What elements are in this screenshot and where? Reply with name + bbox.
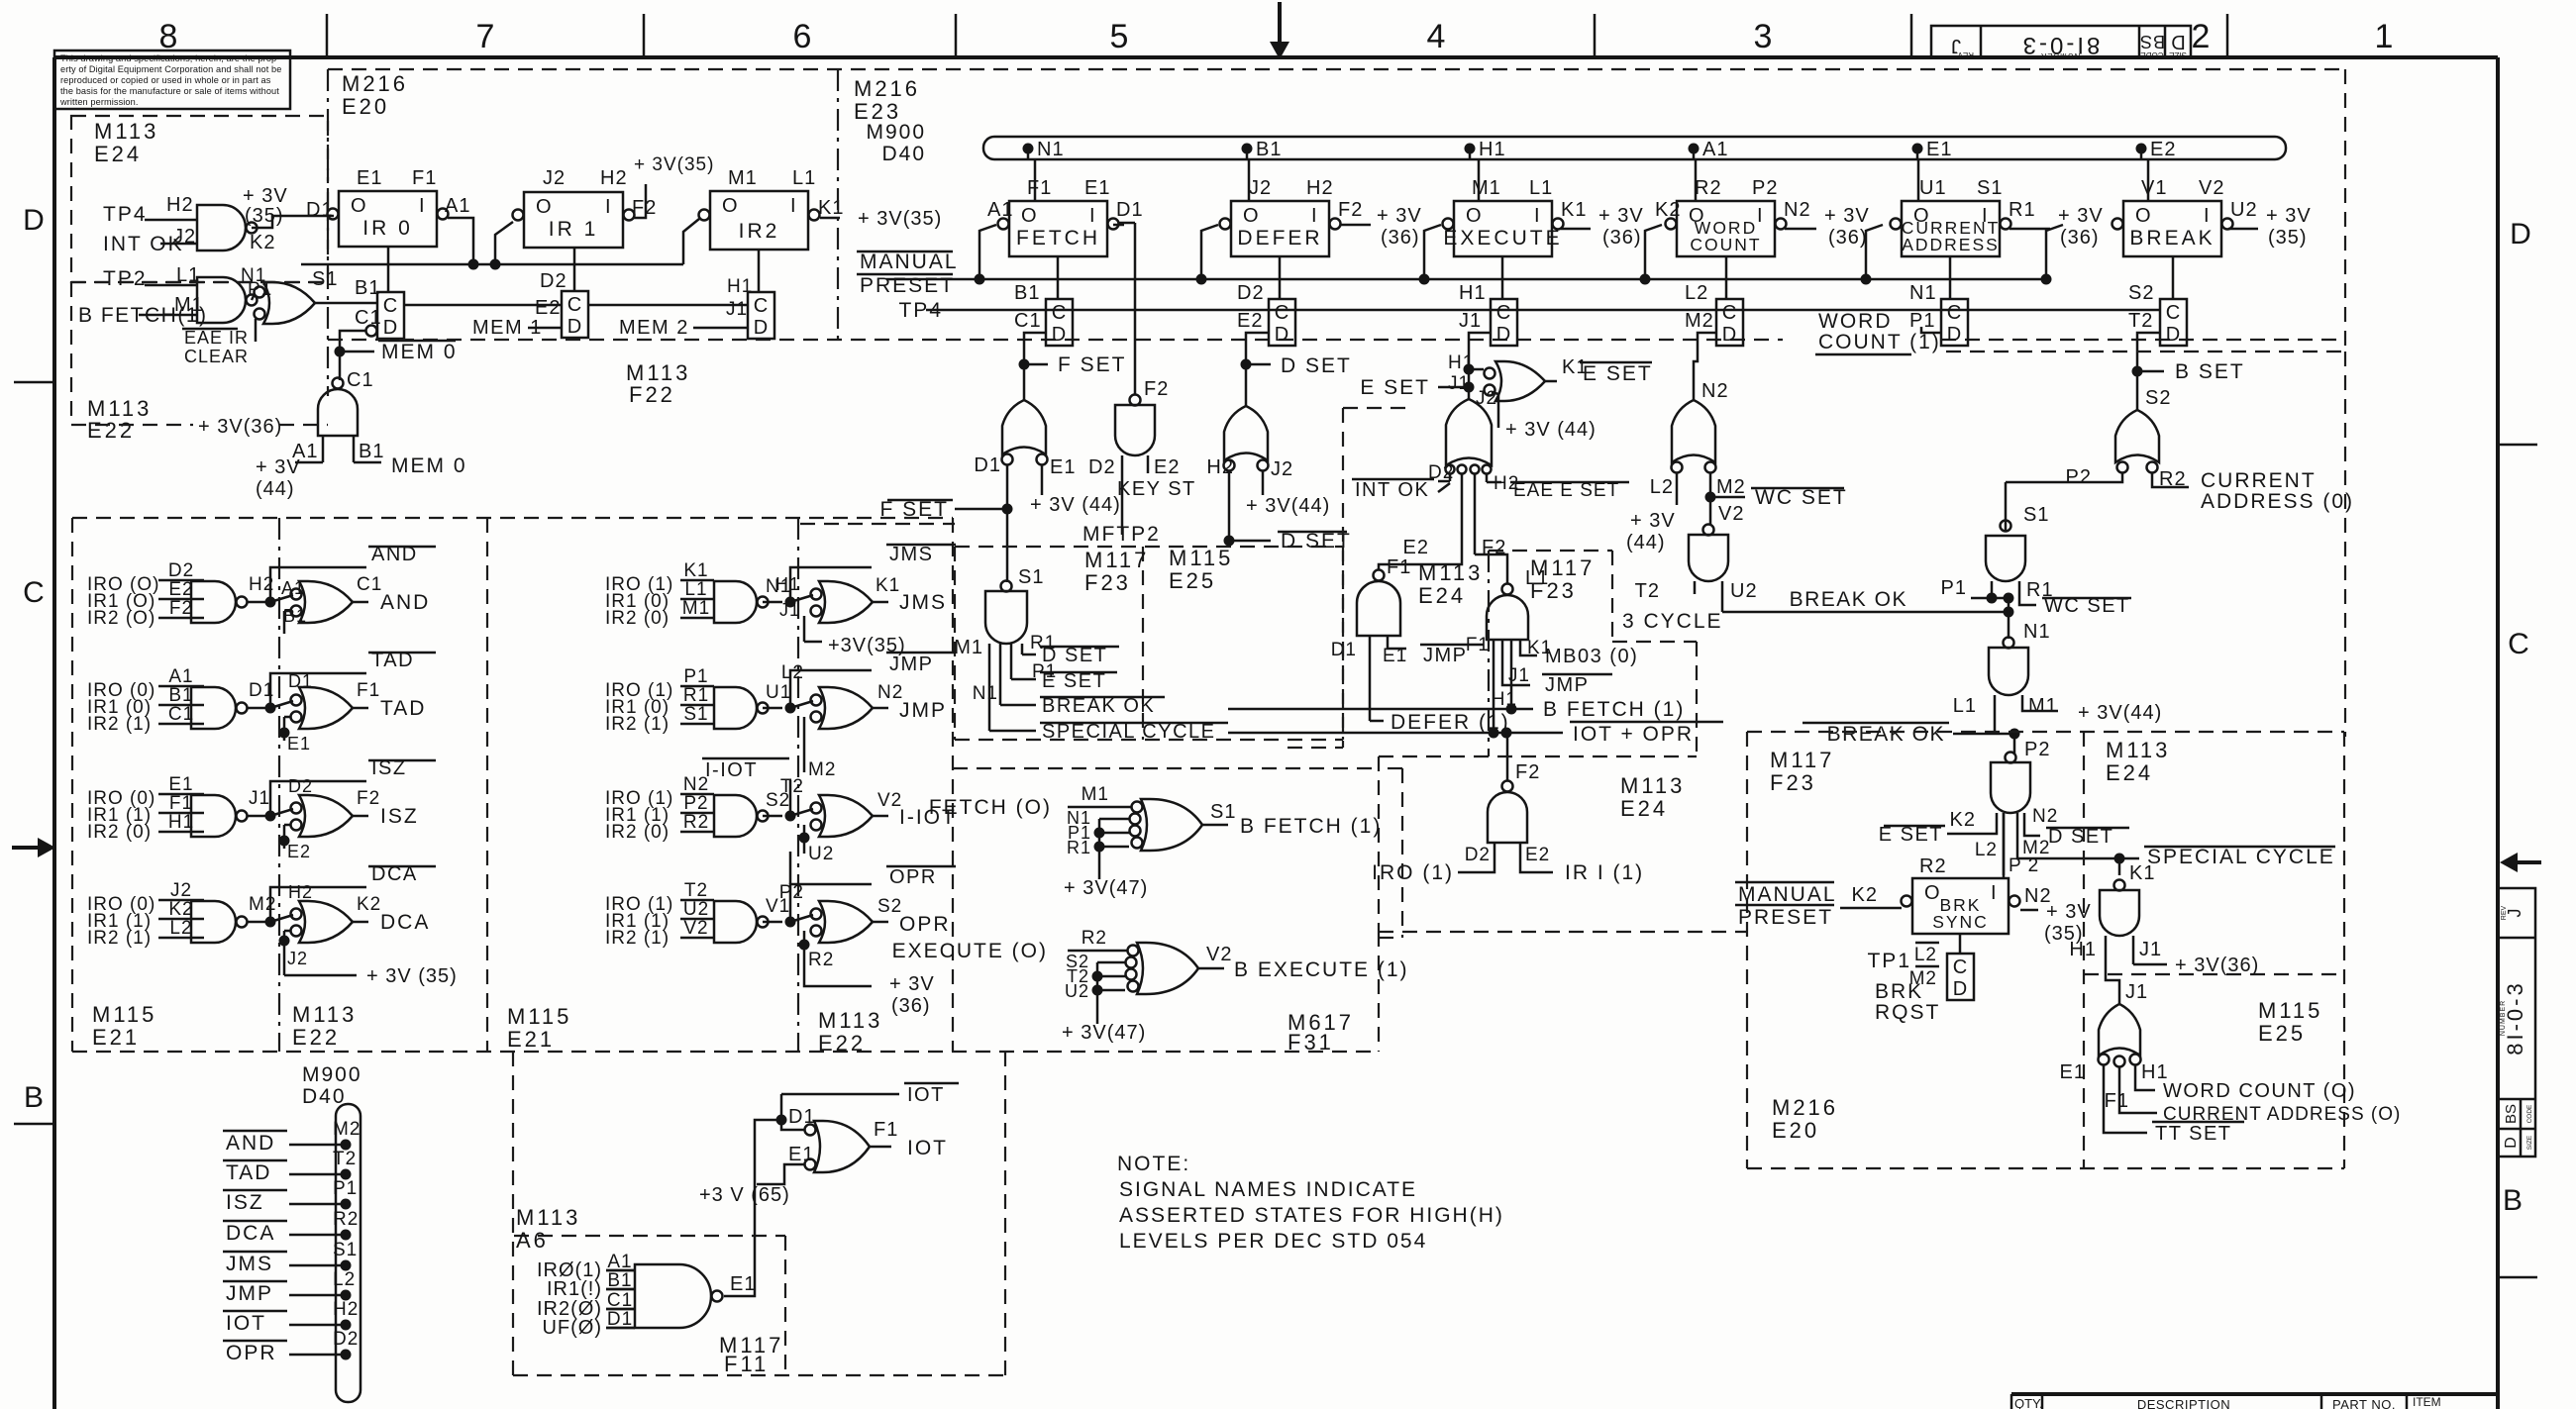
svg-text:H1: H1 [775, 574, 800, 594]
svg-text:M1: M1 [682, 598, 710, 619]
svg-text:E25: E25 [2258, 1021, 2306, 1046]
module label M617 F31 [1288, 1010, 1354, 1055]
svg-text:M2: M2 [1716, 476, 1746, 498]
svg-text:IOT: IOT [907, 1137, 948, 1159]
svg-text:B1: B1 [1256, 139, 1282, 160]
svg-text:C: C [754, 295, 768, 317]
svg-text:+ 3V: + 3V [1824, 205, 1870, 227]
svg-text:E24: E24 [2106, 760, 2153, 785]
svg-text:EXECUTE (O): EXECUTE (O) [892, 940, 1048, 962]
svg-text:S2: S2 [2128, 282, 2154, 304]
flip-flop EXECUTE [1443, 177, 1588, 256]
svg-text:F2: F2 [632, 197, 657, 219]
svg-text:M113: M113 [94, 119, 158, 144]
svg-text:M216: M216 [342, 71, 408, 96]
nand gate TP4/INT OK [103, 194, 275, 255]
svg-text:H2: H2 [600, 167, 628, 189]
svg-text:MEM 1: MEM 1 [472, 317, 543, 339]
svg-text:TP1: TP1 [1867, 950, 1911, 972]
svg-text:written permission.: written permission. [59, 97, 139, 107]
svg-text:R1: R1 [683, 685, 709, 706]
svg-text:J1: J1 [779, 600, 800, 620]
svg-text:O: O [1243, 205, 1260, 227]
cd clock box FETCH [1014, 256, 1073, 346]
svg-text:+ 3V: + 3V [256, 456, 301, 478]
module label M113 E22 (left) [87, 396, 282, 443]
flip-flop IR 1 [513, 167, 658, 248]
svg-text:FETCH (O): FETCH (O) [929, 796, 1052, 819]
svg-text:O: O [722, 195, 739, 217]
wire IR0 bottom to CD [387, 247, 390, 292]
svg-text:K2: K2 [250, 232, 275, 253]
svg-text:IR2 (O): IR2 (O) [87, 608, 155, 629]
svg-text:D: D [2166, 324, 2180, 346]
nand gate K1 (special cycle) [2069, 862, 2259, 1004]
svg-text:U1: U1 [766, 682, 791, 703]
svg-text:R2: R2 [1919, 855, 1947, 877]
svg-text:L2: L2 [1975, 840, 1998, 860]
svg-text:H1: H1 [1479, 139, 1506, 160]
wire MEM 0 branch from CD IR0 [335, 331, 458, 391]
svg-text:A1: A1 [168, 666, 193, 687]
svg-text:E24: E24 [94, 142, 142, 166]
zone ticks left [14, 382, 54, 1124]
dashed top segment over F SET [800, 523, 955, 525]
svg-text:E1: E1 [1926, 139, 1952, 160]
svg-text:I: I [2204, 205, 2211, 227]
svg-text:E2: E2 [1237, 310, 1263, 332]
svg-text:UF(Ø): UF(Ø) [542, 1317, 602, 1339]
svg-text:C: C [567, 294, 581, 316]
module box M617 F31 top edge [953, 767, 1379, 769]
svg-text:R1: R1 [1067, 838, 1091, 857]
flip-flop DEFER [1220, 177, 1364, 256]
wires +3V labels between state FFs [1113, 205, 2312, 249]
svg-text:IRO (1): IRO (1) [1372, 861, 1454, 884]
zone letters right [2503, 218, 2531, 1217]
wire BREAK OK lower [1803, 723, 2020, 755]
svg-text:J2: J2 [287, 949, 308, 968]
wire BREAK OK horizontal [1722, 588, 2014, 639]
svg-text:L2: L2 [1685, 282, 1708, 304]
svg-text:F2: F2 [169, 598, 193, 619]
module label M113 E24 (IR1 box) [1620, 773, 1685, 821]
svg-text:M2: M2 [249, 894, 276, 915]
svg-text:IOT: IOT [907, 1084, 945, 1106]
cd clock box EXECUTE [1459, 256, 1517, 346]
svg-text:DCA: DCA [226, 1222, 275, 1245]
svg-text:C: C [383, 295, 397, 317]
svg-text:K2: K2 [1852, 884, 1878, 906]
flip-flop CURRENT ADDRESS [1891, 177, 2036, 256]
wire MEM 2 [588, 276, 753, 339]
svg-text:J1: J1 [2125, 981, 2148, 1003]
or gate E SET big (4 input) [1352, 388, 1629, 558]
svg-text:J1: J1 [1448, 373, 1470, 394]
decode row ISZ [87, 757, 436, 861]
svg-text:M117: M117 [1530, 555, 1595, 580]
svg-text:T2: T2 [1635, 580, 1660, 602]
svg-text:J2: J2 [170, 880, 192, 901]
svg-text:F2: F2 [1515, 761, 1540, 783]
decode row OPR [605, 866, 956, 1017]
svg-text:J2: J2 [1476, 388, 1497, 409]
svg-text:OPR: OPR [226, 1342, 277, 1364]
svg-text:(36): (36) [1602, 227, 1642, 249]
svg-text:+ 3V(35): + 3V(35) [858, 208, 942, 230]
svg-text:COUNT (1): COUNT (1) [1818, 331, 1941, 353]
svg-text:+ 3V(47): + 3V(47) [1064, 877, 1148, 899]
svg-text:D: D [2170, 31, 2185, 52]
wire signal TAD to bus [223, 1149, 357, 1184]
wire IR2 bottom to CD [758, 250, 761, 292]
module box M113 E24 (top left) [71, 116, 328, 282]
svg-text:P2: P2 [683, 793, 708, 814]
or gate B SET (current address 0) [2006, 387, 2354, 513]
svg-text:LEVELS PER DEC STD 054: LEVELS PER DEC STD 054 [1119, 1230, 1427, 1253]
svg-text:NUMBER: NUMBER [2500, 1000, 2507, 1036]
svg-text:P 2: P 2 [2009, 855, 2039, 876]
svg-text:D2: D2 [540, 270, 567, 292]
svg-text:D: D [23, 204, 45, 237]
svg-text:T2: T2 [2128, 310, 2153, 332]
svg-text:U2: U2 [808, 844, 834, 864]
svg-text:SPECIAL CYCLE: SPECIAL CYCLE [1042, 721, 1216, 743]
svg-text:S1: S1 [2023, 504, 2049, 526]
svg-text:F2: F2 [357, 788, 380, 809]
svg-text:E1: E1 [1383, 646, 1407, 666]
svg-text:D SET: D SET [2048, 826, 2113, 848]
svg-text:JMS: JMS [226, 1253, 273, 1275]
svg-text:M1: M1 [2028, 695, 2058, 717]
svg-text:DEFER: DEFER [1237, 227, 1322, 250]
svg-text:B FETCH (1): B FETCH (1) [1543, 698, 1685, 721]
svg-text:D1: D1 [306, 199, 334, 221]
svg-text:V2: V2 [1206, 944, 1232, 965]
svg-text:(36): (36) [891, 995, 931, 1017]
svg-text:L2: L2 [333, 1269, 356, 1290]
svg-text:COUNT: COUNT [1690, 235, 1761, 254]
nand gate L1 (4 input) [1466, 554, 1638, 733]
svg-text:E22: E22 [292, 1025, 340, 1050]
svg-text:M113: M113 [516, 1205, 580, 1230]
svg-text:K2: K2 [357, 894, 381, 915]
svg-text:SIGNAL NAMES INDICATE: SIGNAL NAMES INDICATE [1119, 1178, 1417, 1201]
wire B FETCH(1) line [1228, 698, 1685, 721]
svg-text:J2: J2 [543, 167, 566, 189]
wire TP4 output to IR0 D1 input [243, 185, 334, 228]
svg-text:IR2 (1): IR2 (1) [605, 928, 670, 949]
svg-text:E SET: E SET [1360, 376, 1430, 399]
dashed line bottom of M216 row [328, 339, 2345, 341]
svg-text:R1: R1 [2009, 199, 2036, 221]
svg-text:TT SET: TT SET [2155, 1123, 2232, 1145]
svg-text:IR 1: IR 1 [549, 218, 599, 241]
svg-text:F1: F1 [357, 680, 380, 701]
svg-text:B1: B1 [355, 277, 380, 299]
wire signal OPR to bus [223, 1329, 359, 1364]
wire IR1 F2 to +3V [634, 154, 714, 218]
svg-text:ASSERTED STATES FOR HIGH(H): ASSERTED STATES FOR HIGH(H) [1119, 1204, 1504, 1227]
wire signal JMS to bus [223, 1240, 358, 1275]
svg-text:ISZ: ISZ [380, 805, 419, 828]
svg-text:NUMBER: NUMBER [2040, 51, 2081, 60]
svg-text:D2: D2 [1237, 282, 1265, 304]
svg-text:D1: D1 [288, 671, 313, 691]
svg-text:SPECIAL CYCLE: SPECIAL CYCLE [2147, 846, 2335, 868]
decode row AND [87, 544, 436, 634]
dashed stub right of B EXECUTE [1379, 768, 1402, 938]
svg-text:R2: R2 [1082, 928, 1107, 949]
svg-text:O: O [1924, 882, 1941, 904]
svg-text:CODE: CODE [2526, 1104, 2533, 1123]
svg-text:I: I [1089, 205, 1096, 227]
svg-text:E1: E1 [788, 1144, 814, 1165]
svg-text:I: I [790, 195, 797, 217]
svg-text:S1: S1 [1018, 566, 1044, 588]
svg-text:+ 3V: + 3V [2266, 205, 2312, 227]
svg-text:F1: F1 [1466, 635, 1490, 655]
svg-text:R2: R2 [1695, 177, 1722, 199]
title block top right (upside down) [1931, 26, 2191, 60]
svg-text:C: C [2508, 628, 2529, 660]
svg-text:+ 3V: + 3V [1598, 205, 1644, 227]
svg-text:N1: N1 [1037, 139, 1065, 160]
svg-text:the basis for the manufacture: the basis for the manufacture or sale of… [60, 86, 279, 96]
svg-text:reproduced or copied or used i: reproduced or copied or used in whole or… [60, 75, 271, 85]
svg-text:JMP: JMP [889, 654, 934, 675]
module box M216 E20 dash-dot [328, 69, 408, 396]
svg-text:K1: K1 [818, 197, 844, 219]
svg-text:M900: M900 [866, 121, 926, 144]
wire IR1 bottom to CD [573, 248, 576, 291]
svg-text:1: 1 [2375, 18, 2394, 55]
svg-text:R2: R2 [333, 1209, 359, 1230]
svg-text:H2: H2 [333, 1299, 359, 1320]
or gate J1 (word count 0) [2060, 1004, 2402, 1145]
svg-text:E20: E20 [1772, 1118, 1819, 1143]
svg-text:O: O [2135, 205, 2152, 227]
svg-text:I-IOT: I-IOT [705, 759, 758, 781]
nand gate IR0+IR1+IR2+UF (A6) [537, 1252, 756, 1339]
wire F1 nand output to E SET E2 leg [1379, 554, 1462, 570]
svg-text:C: C [23, 576, 45, 609]
svg-text:I: I [1311, 205, 1318, 227]
svg-text:+ 3V: + 3V [889, 973, 935, 995]
svg-text:A1: A1 [1702, 139, 1728, 160]
svg-text:S1: S1 [1210, 801, 1236, 823]
svg-text:(44): (44) [256, 478, 295, 500]
svg-text:CODE: CODE [2140, 50, 2163, 59]
svg-text:N2: N2 [1701, 380, 1729, 402]
module box decode left (M115 E21 / M113 E22) [72, 518, 1379, 1056]
svg-text:J: J [2505, 909, 2524, 918]
svg-text:H1: H1 [1448, 352, 1474, 373]
svg-text:O: O [1021, 205, 1038, 227]
svg-text:H2: H2 [166, 194, 194, 216]
dashed boundary M113 E24 left [1288, 408, 1414, 748]
zone letters left [23, 204, 45, 1114]
wire SPECIAL CYCLE [2017, 846, 2335, 875]
svg-text:JMP: JMP [1423, 645, 1468, 666]
svg-text:S2: S2 [2145, 387, 2171, 409]
svg-text:H1: H1 [2069, 939, 2097, 960]
wire D SET from DEFER CD [1241, 333, 1352, 406]
svg-text:M115: M115 [507, 1004, 571, 1029]
svg-text:3 CYCLE: 3 CYCLE [1622, 610, 1723, 633]
wire signal ISZ to bus [223, 1178, 358, 1214]
wire E SET riser from EXECUTE CD [1360, 333, 1491, 399]
dashed line top right (BREAK area) [1946, 352, 2345, 737]
or gate D SET [1206, 406, 1351, 553]
svg-text:F23: F23 [1530, 578, 1577, 603]
wire signal JMP to bus [223, 1269, 356, 1305]
wire signal IOT to bus [223, 1299, 359, 1335]
nor gate S1 (IR strobe) [182, 268, 338, 366]
svg-text:MANUAL: MANUAL [860, 251, 959, 273]
svg-text:E20: E20 [342, 94, 389, 119]
svg-text:M113: M113 [1620, 773, 1685, 798]
svg-text:B EXECUTE (1): B EXECUTE (1) [1234, 958, 1409, 981]
svg-text:M1: M1 [954, 637, 983, 658]
svg-text:J1: J1 [1459, 310, 1482, 332]
svg-text:E2: E2 [535, 297, 561, 319]
svg-text:C: C [1953, 956, 1967, 978]
svg-text:J1: J1 [249, 788, 270, 809]
svg-text:SIZE: SIZE [2526, 1135, 2533, 1150]
svg-text:P1: P1 [1941, 577, 1967, 599]
svg-text:B: B [2503, 1184, 2523, 1217]
svg-text:IR2 (0): IR2 (0) [605, 608, 670, 629]
svg-text:IR I (1): IR I (1) [1565, 861, 1644, 884]
svg-text:D1: D1 [1116, 199, 1144, 221]
svg-text:EAE IR: EAE IR [184, 328, 249, 348]
svg-text:E21: E21 [507, 1027, 555, 1052]
svg-text:ITEM: ITEM [2413, 1395, 2441, 1409]
wire S1 to CD IR0 [315, 302, 377, 305]
svg-text:V2: V2 [2199, 177, 2224, 199]
svg-text:(36): (36) [2060, 227, 2100, 249]
svg-text:J1: J1 [726, 299, 748, 320]
svg-text:TP2: TP2 [103, 267, 148, 290]
svg-text:IR1(!): IR1(!) [547, 1278, 602, 1300]
svg-text:H1: H1 [727, 276, 753, 297]
svg-text:E1: E1 [1084, 177, 1110, 199]
svg-text:E SET: E SET [1583, 362, 1653, 385]
svg-text:MEM 2: MEM 2 [619, 317, 689, 339]
svg-text:F2: F2 [1338, 199, 1363, 221]
svg-text:(35): (35) [2268, 227, 2308, 249]
svg-text:+ 3V(36): + 3V(36) [198, 416, 282, 438]
svg-text:+ 3V(36): + 3V(36) [2175, 955, 2259, 976]
svg-text:REV.: REV. [1956, 50, 1974, 59]
alignment arrow left [12, 838, 55, 857]
svg-text:F1: F1 [412, 167, 437, 189]
or gate WC SET N2 [1626, 380, 1848, 554]
svg-text:N1: N1 [1909, 282, 1937, 304]
svg-text:M117: M117 [1084, 548, 1149, 572]
svg-text:+ 3V(47): + 3V(47) [1062, 1022, 1146, 1044]
svg-text:MEM 0: MEM 0 [381, 341, 458, 363]
svg-text:REV: REV [2501, 905, 2508, 920]
svg-text:E22: E22 [87, 418, 135, 443]
svg-text:3: 3 [1754, 18, 1773, 55]
svg-text:I: I [1991, 882, 1998, 904]
svg-text:D: D [754, 317, 768, 339]
or gate B EXECUTE [892, 928, 1409, 1044]
svg-text:T2: T2 [333, 1149, 357, 1169]
svg-text:PART NO.: PART NO. [2332, 1397, 2396, 1409]
svg-text:F22: F22 [629, 382, 675, 407]
svg-text:BS: BS [2139, 32, 2165, 51]
dashed box IR1(1) region [1379, 756, 1747, 1052]
svg-text:6: 6 [793, 18, 812, 55]
svg-text:N1: N1 [2023, 621, 2051, 643]
svg-text:F1: F1 [874, 1119, 898, 1141]
svg-text:BREAK OK: BREAK OK [1827, 723, 1945, 746]
svg-text:M216: M216 [1772, 1095, 1838, 1120]
svg-text:A1: A1 [987, 199, 1013, 221]
svg-text:QTY.: QTY. [2014, 1396, 2043, 1409]
svg-text:M1: M1 [174, 294, 204, 316]
alignment arrow top (down) [1270, 2, 1289, 59]
cd clock box IR1 [540, 270, 588, 338]
svg-text:E1: E1 [287, 734, 311, 754]
svg-text:JMP: JMP [1545, 674, 1590, 696]
svg-text:D1: D1 [788, 1106, 816, 1128]
svg-text:+ 3V: + 3V [2058, 205, 2104, 227]
svg-text:(35): (35) [245, 205, 284, 227]
svg-text:BREAK OK: BREAK OK [1042, 695, 1155, 717]
svg-text:T2: T2 [780, 776, 804, 797]
svg-text:M1: M1 [728, 167, 758, 189]
svg-text:M1: M1 [1472, 177, 1501, 199]
svg-text:+ 3V: + 3V [1630, 510, 1676, 532]
svg-text:OPR: OPR [899, 913, 951, 936]
svg-text:K1: K1 [683, 560, 708, 581]
svg-text:(36): (36) [1381, 227, 1420, 249]
svg-text:L2: L2 [169, 918, 192, 939]
zone ticks right [2498, 445, 2537, 1277]
cd clock box IR0 [355, 277, 404, 339]
svg-text:(36): (36) [1828, 227, 1868, 249]
svg-text:P1: P1 [683, 666, 708, 687]
module label M113 F22 [626, 360, 690, 407]
svg-text:U2: U2 [2230, 199, 2258, 221]
svg-text:OPR: OPR [889, 866, 937, 888]
svg-text:JMS: JMS [899, 591, 947, 614]
wire WC SET from WORD COUNT CD [1694, 333, 1716, 400]
svg-text:MANUAL: MANUAL [1738, 883, 1837, 906]
svg-text:4: 4 [1427, 18, 1446, 55]
svg-text:B FETCH (1): B FETCH (1) [1240, 815, 1382, 838]
svg-text:D: D [567, 316, 581, 338]
svg-text:MB03 (0): MB03 (0) [1545, 646, 1638, 667]
flip-flop IR 0 [306, 167, 470, 247]
svg-text:WORD COUNT (O): WORD COUNT (O) [2163, 1080, 2356, 1102]
svg-text:F1: F1 [2105, 1090, 2129, 1112]
svg-text:C: C [1947, 302, 1961, 324]
nand gate KEY ST [1082, 223, 1196, 546]
svg-text:V2: V2 [1718, 503, 1744, 525]
module box M117 F23 / M115 E25 (middle) [955, 546, 1343, 740]
svg-text:F1: F1 [1027, 177, 1052, 199]
svg-text:E25: E25 [1169, 568, 1216, 593]
svg-text:(44): (44) [1626, 532, 1666, 554]
wire MEM 1 [404, 297, 562, 339]
svg-text:ISZ: ISZ [226, 1191, 264, 1214]
svg-text:D2: D2 [1465, 845, 1491, 865]
